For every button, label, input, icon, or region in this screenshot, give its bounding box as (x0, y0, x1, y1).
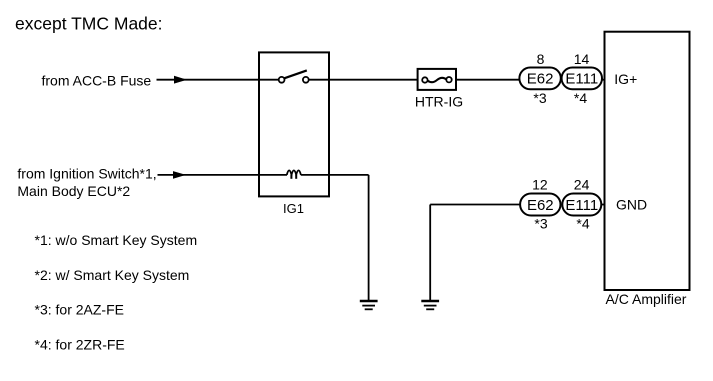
svg-text:8: 8 (537, 51, 545, 67)
svg-text:E111: E111 (565, 197, 598, 214)
svg-text:HTR-IG: HTR-IG (415, 94, 463, 110)
svg-text:E111: E111 (565, 71, 598, 88)
svg-text:E62: E62 (527, 197, 554, 214)
svg-text:IG1: IG1 (283, 201, 304, 216)
svg-text:*3: *3 (534, 215, 547, 231)
svg-text:from Ignition Switch*1,: from Ignition Switch*1, (17, 166, 156, 182)
svg-text:*3: *3 (533, 90, 546, 106)
svg-text:E62: E62 (527, 71, 554, 88)
svg-text:24: 24 (574, 176, 590, 192)
svg-text:*2: w/ Smart Key System: *2: w/ Smart Key System (35, 267, 190, 283)
svg-text:*4: for 2ZR-FE: *4: for 2ZR-FE (35, 336, 125, 352)
svg-text:GND: GND (616, 197, 647, 213)
svg-text:A/C Amplifier: A/C Amplifier (606, 291, 687, 307)
svg-text:from ACC-B Fuse: from ACC-B Fuse (42, 73, 152, 89)
svg-text:*1: w/o Smart Key System: *1: w/o Smart Key System (35, 232, 198, 248)
svg-text:except TMC Made:: except TMC Made: (15, 14, 163, 34)
svg-text:*3: for 2AZ-FE: *3: for 2AZ-FE (35, 302, 124, 318)
svg-text:IG+: IG+ (614, 71, 637, 87)
svg-text:12: 12 (532, 176, 548, 192)
svg-text:*4: *4 (574, 90, 587, 106)
svg-text:Main Body ECU*2: Main Body ECU*2 (17, 183, 130, 199)
svg-text:14: 14 (574, 51, 590, 67)
svg-text:*4: *4 (576, 215, 589, 231)
